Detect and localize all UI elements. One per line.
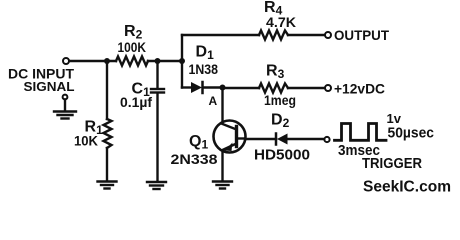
- trigger terminal: [324, 137, 329, 142]
- svg-text:SIGNAL: SIGNAL: [24, 79, 75, 94]
- output terminal: [325, 32, 331, 38]
- wire: input rail: [70, 60, 117, 62]
- svg-text:TRIGGER: TRIGGER: [362, 156, 422, 172]
- ground under input: [54, 110, 76, 112]
- wire: node A down to Q1 collector: [221, 88, 223, 123]
- capacitor C1: [156, 61, 158, 88]
- svg-text:1meg: 1meg: [264, 93, 296, 108]
- svg-text:OUTPUT: OUTPUT: [334, 27, 389, 43]
- input terminal: [63, 58, 69, 64]
- input ground terminal: [63, 95, 68, 100]
- node junction at top-rail branch: [179, 58, 185, 64]
- svg-text:+12vDC: +12vDC: [334, 81, 385, 97]
- wire: node A to R3: [223, 87, 260, 89]
- resistor R4: [259, 31, 288, 40]
- ground under C1: [147, 181, 166, 183]
- node A: [220, 85, 226, 91]
- wire: emitter down to ground: [221, 151, 223, 182]
- wire: R4 to output: [288, 34, 325, 36]
- resistor R3: [259, 84, 288, 93]
- wire: R2 to C1 junction: [148, 60, 182, 62]
- diode D2: [275, 134, 278, 145]
- ground under R1: [98, 180, 117, 182]
- wire: top rail to R4: [182, 34, 259, 36]
- svg-text:2N338: 2N338: [171, 152, 219, 167]
- svg-text:SeekIC.com: SeekIC.com: [363, 178, 451, 195]
- svg-text:0.1µf: 0.1µf: [120, 95, 153, 110]
- svg-text:4.7K: 4.7K: [266, 15, 296, 30]
- node junction at R1 branch: [104, 58, 110, 64]
- resistor R2: [116, 57, 148, 66]
- ground under Q1: [213, 180, 232, 182]
- trigger waveform: [335, 124, 387, 141]
- +12vDC terminal: [325, 85, 331, 91]
- svg-text:HD5000: HD5000: [254, 147, 310, 164]
- diode D1: [182, 86, 191, 88]
- wire: base to D2: [245, 138, 276, 140]
- svg-text:10K: 10K: [74, 134, 98, 149]
- svg-text:1v: 1v: [387, 111, 402, 126]
- wire: R3 to +12vDC terminal: [288, 87, 325, 89]
- svg-text:100K: 100K: [118, 40, 147, 55]
- svg-text:A: A: [209, 94, 218, 108]
- svg-text:50µsec: 50µsec: [388, 126, 435, 142]
- resistor R1: [106, 61, 108, 119]
- node junction at C1 branch: [155, 58, 161, 64]
- wire: vertical riser x=182: [181, 35, 183, 88]
- svg-text:1N38: 1N38: [189, 62, 219, 77]
- transistor Q1: [214, 121, 246, 153]
